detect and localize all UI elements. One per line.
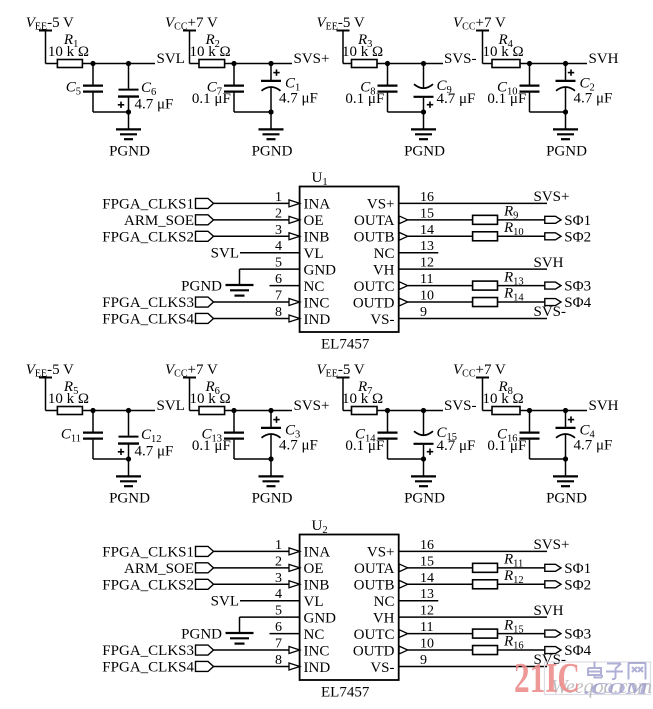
capacitor C11 (92, 411, 94, 432)
wire pin 10 (408, 649, 545, 651)
wire pin 3 (214, 235, 290, 237)
wire pin 8 (214, 665, 290, 667)
svg-text:FPGA_CLKS1: FPGA_CLKS1 (102, 196, 194, 212)
wire ground drop (239, 617, 241, 633)
svg-text:SVS+: SVS+ (294, 51, 330, 67)
svg-text:GND: GND (304, 262, 337, 278)
svg-text:21IC: 21IC (514, 656, 580, 702)
watermark 21IC logo (545, 662, 651, 695)
node output S-phi-1 (545, 564, 561, 571)
wire pin 2 (214, 219, 290, 221)
svg-text:VS-: VS- (370, 312, 394, 328)
node junction bottom (421, 456, 426, 461)
svg-text:SVS-: SVS- (444, 51, 477, 67)
wire pin 4 (240, 600, 300, 602)
svg-text:SVS+: SVS+ (534, 537, 570, 553)
svg-text:SΦ4: SΦ4 (564, 295, 591, 311)
wire supply stem (342, 31, 344, 64)
resistor R12 (473, 580, 498, 589)
svg-text:INB: INB (304, 578, 330, 594)
svg-text:OUTD: OUTD (353, 295, 395, 311)
svg-text:FPGA_CLKS1: FPGA_CLKS1 (102, 544, 194, 560)
resistor R8 (492, 407, 520, 415)
wire pin 1 (214, 550, 290, 552)
svg-text:OE: OE (304, 213, 324, 229)
capacitor C10 (529, 64, 531, 85)
wire to ground (270, 112, 272, 129)
svg-text:OUTC: OUTC (354, 279, 395, 295)
wire pin 7 (214, 649, 290, 651)
resistor R5 (57, 407, 82, 415)
capacitor C5 (92, 64, 94, 85)
wire to ground (423, 112, 425, 129)
wire cap bottom rail (388, 458, 424, 460)
svg-text:SVL: SVL (211, 246, 239, 262)
svg-text:PGND: PGND (181, 627, 222, 643)
wire pin 2 (214, 567, 290, 569)
wire supply stem (482, 378, 484, 411)
capacitor C9 polarized (423, 64, 425, 89)
svg-text:PGND: PGND (252, 144, 293, 160)
node output S-phi-4 (545, 299, 561, 306)
svg-text:SVH: SVH (534, 255, 564, 271)
svg-text:0.1 μF: 0.1 μF (487, 91, 526, 107)
svg-text:VS+: VS+ (367, 197, 395, 213)
svg-text:SVS+: SVS+ (294, 398, 330, 414)
wire supply stem (342, 378, 344, 411)
svg-text:FPGA_CLKS3: FPGA_CLKS3 (102, 643, 194, 659)
wire main rail (190, 410, 293, 412)
wire pin 15 (408, 219, 545, 221)
svg-text:.COM: .COM (584, 679, 649, 698)
svg-text:SVH: SVH (589, 51, 619, 67)
wire main rail (190, 63, 293, 65)
capacitor C3 polarized (273, 419, 279, 421)
wire pin 16 (399, 550, 547, 552)
svg-text:10 k Ω: 10 k Ω (190, 44, 231, 60)
svg-text:SVS-: SVS- (534, 304, 567, 320)
wire to ground (270, 459, 272, 476)
svg-text:4.7 μF: 4.7 μF (574, 91, 613, 107)
resistor R4 (492, 60, 520, 68)
svg-text:INA: INA (304, 197, 331, 213)
ground PGND (411, 475, 436, 477)
node junction J1 (90, 61, 95, 66)
node junction J1 (385, 408, 390, 413)
capacitor C12 polarized (128, 411, 130, 436)
svg-text:0.1 μF: 0.1 μF (345, 91, 384, 107)
ground PGND (553, 475, 578, 477)
wire pin 6 stub (270, 633, 300, 635)
svg-text:4.7 μF: 4.7 μF (135, 97, 174, 113)
svg-text:SΦ1: SΦ1 (564, 561, 591, 577)
power terminal bar (183, 30, 196, 32)
ground PGND (116, 475, 141, 477)
capacitor C2 polarized (568, 72, 574, 74)
node junction J2 (268, 408, 273, 413)
wire pin 5 (240, 616, 300, 618)
svg-text:GND: GND (304, 610, 337, 626)
svg-text:VL: VL (304, 594, 324, 610)
node output S-phi-2 (545, 581, 561, 588)
resistor R11 (473, 563, 498, 572)
svg-text:ARM_SOE: ARM_SOE (124, 561, 194, 577)
node junction J2 (563, 408, 568, 413)
svg-text:OUTB: OUTB (354, 230, 395, 246)
node junction J2 (563, 61, 568, 66)
svg-text:PGND: PGND (546, 144, 587, 160)
svg-text:EL7457: EL7457 (321, 685, 370, 701)
ground PGND (259, 128, 284, 130)
ground PGND (259, 475, 284, 477)
svg-text:SVS-: SVS- (444, 398, 477, 414)
wire pin 9 (399, 317, 547, 319)
svg-text:FPGA_CLKS4: FPGA_CLKS4 (102, 311, 194, 327)
wire main rail (46, 410, 156, 412)
svg-text:0.1 μF: 0.1 μF (192, 438, 231, 454)
node junction bottom (126, 456, 131, 461)
svg-text:NC: NC (304, 279, 325, 295)
power terminal bar (39, 30, 52, 32)
resistor R10 (473, 232, 498, 241)
op-amp U1 IC EL7457 (300, 187, 399, 333)
wire to ground (565, 459, 567, 476)
node junction J2 (126, 408, 131, 413)
ground PGND (226, 284, 254, 286)
capacitor C6 polarized (128, 64, 130, 89)
svg-text:10 k Ω: 10 k Ω (48, 44, 89, 60)
svg-text:SΦ2: SΦ2 (564, 229, 591, 245)
svg-text:SΦ3: SΦ3 (564, 279, 591, 295)
wire main rail (483, 63, 588, 65)
wire cap bottom rail (234, 458, 271, 460)
wire cap bottom rail (234, 111, 271, 113)
capacitor C1 polarized (273, 72, 279, 74)
svg-text:SVL: SVL (157, 398, 185, 414)
wire pin 14 (408, 583, 545, 585)
svg-text:VH: VH (373, 610, 395, 626)
svg-text:SΦ2: SΦ2 (564, 577, 591, 593)
node junction J2 (421, 408, 426, 413)
capacitor C15 polarized (423, 411, 425, 436)
node junction J1 (231, 408, 236, 413)
wire pin 8 (214, 317, 290, 319)
node junction bottom (563, 109, 568, 114)
svg-text:FPGA_CLKS3: FPGA_CLKS3 (102, 295, 194, 311)
wire supply stem (45, 31, 47, 64)
svg-text:0.1 μF: 0.1 μF (487, 438, 526, 454)
resistor R14 (473, 298, 498, 307)
svg-text:NC: NC (374, 246, 395, 262)
svg-text:FPGA_CLKS2: FPGA_CLKS2 (102, 577, 194, 593)
resistor R6 (199, 407, 225, 415)
svg-text:SVH: SVH (534, 603, 564, 619)
svg-text:OUTA: OUTA (354, 561, 395, 577)
svg-text:4.7 μF: 4.7 μF (574, 438, 613, 454)
resistor R3 (352, 60, 378, 68)
wire pin 13 stub (399, 252, 439, 254)
svg-text:10 k Ω: 10 k Ω (483, 44, 524, 60)
wire pin 9 (399, 665, 547, 667)
wire supply stem (45, 378, 47, 411)
svg-text:SVS+: SVS+ (534, 189, 570, 205)
svg-text:10 k Ω: 10 k Ω (483, 391, 524, 407)
wire pin 11 (408, 633, 545, 635)
node junction bottom (268, 456, 273, 461)
wire supply stem (189, 31, 191, 64)
wire supply stem (482, 31, 484, 64)
node junction J1 (527, 61, 532, 66)
node junction J1 (385, 61, 390, 66)
node output S-phi-4 (545, 647, 561, 654)
wire cap bottom rail (93, 111, 129, 113)
capacitor C4 polarized (568, 419, 574, 421)
svg-text:IND: IND (304, 660, 331, 676)
node output S-phi-1 (545, 216, 561, 223)
svg-text:0.1 μF: 0.1 μF (192, 91, 231, 107)
wire pin 7 (214, 301, 290, 303)
wire pin 13 stub (399, 600, 439, 602)
resistor R9 (473, 215, 498, 224)
resistor R2 (199, 60, 225, 68)
node output S-phi-3 (545, 630, 561, 637)
svg-text:ARM_SOE: ARM_SOE (124, 213, 194, 229)
node output S-phi-3 (545, 282, 561, 289)
svg-text:PGND: PGND (404, 144, 445, 160)
svg-text:OUTA: OUTA (354, 213, 395, 229)
svg-text:4.7 μF: 4.7 μF (135, 444, 174, 460)
svg-text:10 k Ω: 10 k Ω (342, 391, 383, 407)
power terminal bar (39, 377, 52, 379)
svg-text:INA: INA (304, 545, 331, 561)
wire pin 15 (408, 567, 545, 569)
wire main rail (46, 63, 156, 65)
svg-text:SΦ3: SΦ3 (564, 627, 591, 643)
resistor R16 (473, 646, 498, 655)
svg-text:VH: VH (373, 262, 395, 278)
wire pin 6 stub (270, 285, 300, 287)
wire cap bottom rail (530, 458, 566, 460)
wire pin 10 (408, 301, 545, 303)
node junction J2 (126, 61, 131, 66)
wire to ground (128, 112, 130, 129)
wire pin 5 (240, 268, 300, 270)
svg-text:NC: NC (304, 627, 325, 643)
svg-text:FPGA_CLKS4: FPGA_CLKS4 (102, 659, 194, 675)
svg-text:PGND: PGND (109, 144, 150, 160)
svg-text:PGND: PGND (181, 279, 222, 295)
wire ground drop (239, 269, 241, 285)
svg-text:0.1 μF: 0.1 μF (345, 438, 384, 454)
power terminal bar (183, 377, 196, 379)
svg-text:SΦ1: SΦ1 (564, 213, 591, 229)
wire main rail (483, 410, 588, 412)
wire pin 12 (399, 616, 547, 618)
wire pin 11 (408, 285, 545, 287)
wire to ground (128, 459, 130, 476)
resistor R15 (473, 629, 498, 638)
ground PGND (411, 128, 436, 130)
power terminal bar (476, 377, 489, 379)
svg-text:INC: INC (304, 295, 330, 311)
node junction J1 (527, 408, 532, 413)
power terminal bar (476, 30, 489, 32)
wire main rail (343, 63, 443, 65)
wire to ground (565, 112, 567, 129)
node junction J2 (268, 61, 273, 66)
wire supply stem (189, 378, 191, 411)
svg-text:OUTB: OUTB (354, 578, 395, 594)
wire pin 14 (408, 235, 545, 237)
svg-text:EL7457: EL7457 (321, 337, 370, 353)
svg-text:10 k Ω: 10 k Ω (48, 391, 89, 407)
ground PGND (226, 632, 254, 634)
power terminal bar (337, 30, 350, 32)
svg-text:OUTD: OUTD (353, 643, 395, 659)
wire cap bottom rail (93, 458, 129, 460)
svg-text:VL: VL (304, 246, 324, 262)
svg-text:4.7 μF: 4.7 μF (279, 91, 318, 107)
svg-text:OE: OE (304, 561, 324, 577)
resistor R13 (473, 281, 498, 290)
wire pin 1 (214, 202, 290, 204)
svg-text:4.7 μF: 4.7 μF (279, 438, 318, 454)
wire cap bottom rail (388, 111, 424, 113)
capacitor C8 (387, 64, 389, 85)
svg-text:4.7 μF: 4.7 μF (437, 438, 476, 454)
op-amp U2 IC EL7457 (300, 535, 399, 681)
resistor R1 (57, 60, 82, 68)
svg-text:INC: INC (304, 643, 330, 659)
ground PGND (116, 128, 141, 130)
resistor R7 (352, 407, 378, 415)
node junction bottom (421, 109, 426, 114)
wire cap bottom rail (530, 111, 566, 113)
node junction J1 (90, 408, 95, 413)
wire pin 12 (399, 268, 547, 270)
svg-text:VS-: VS- (370, 660, 394, 676)
wire main rail (343, 410, 443, 412)
svg-text:VS+: VS+ (367, 545, 395, 561)
svg-text:PGND: PGND (404, 491, 445, 507)
svg-text:OUTC: OUTC (354, 627, 395, 643)
wire pin 4 (240, 252, 300, 254)
svg-text:SVL: SVL (211, 594, 239, 610)
wire pin 16 (399, 202, 547, 204)
svg-text:4.7 μF: 4.7 μF (437, 91, 476, 107)
svg-text:SVL: SVL (157, 51, 185, 67)
svg-text:SVH: SVH (589, 398, 619, 414)
node junction bottom (563, 456, 568, 461)
svg-text:IND: IND (304, 312, 331, 328)
node junction bottom (126, 109, 131, 114)
svg-text:FPGA_CLKS2: FPGA_CLKS2 (102, 229, 194, 245)
power terminal bar (337, 377, 350, 379)
svg-text:10 k Ω: 10 k Ω (190, 391, 231, 407)
node junction J2 (421, 61, 426, 66)
capacitor C13 (233, 411, 235, 432)
ground PGND (553, 128, 578, 130)
svg-text:PGND: PGND (252, 491, 293, 507)
node junction bottom (268, 109, 273, 114)
node junction J1 (231, 61, 236, 66)
svg-text:PGND: PGND (546, 491, 587, 507)
svg-text:INB: INB (304, 230, 330, 246)
svg-text:NC: NC (374, 594, 395, 610)
capacitor C7 (233, 64, 235, 85)
capacitor C14 (387, 411, 389, 432)
wire pin 3 (214, 583, 290, 585)
svg-text:PGND: PGND (109, 491, 150, 507)
wire to ground (423, 459, 425, 476)
capacitor C16 (529, 411, 531, 432)
svg-text:10 k Ω: 10 k Ω (342, 44, 383, 60)
node output S-phi-2 (545, 233, 561, 240)
